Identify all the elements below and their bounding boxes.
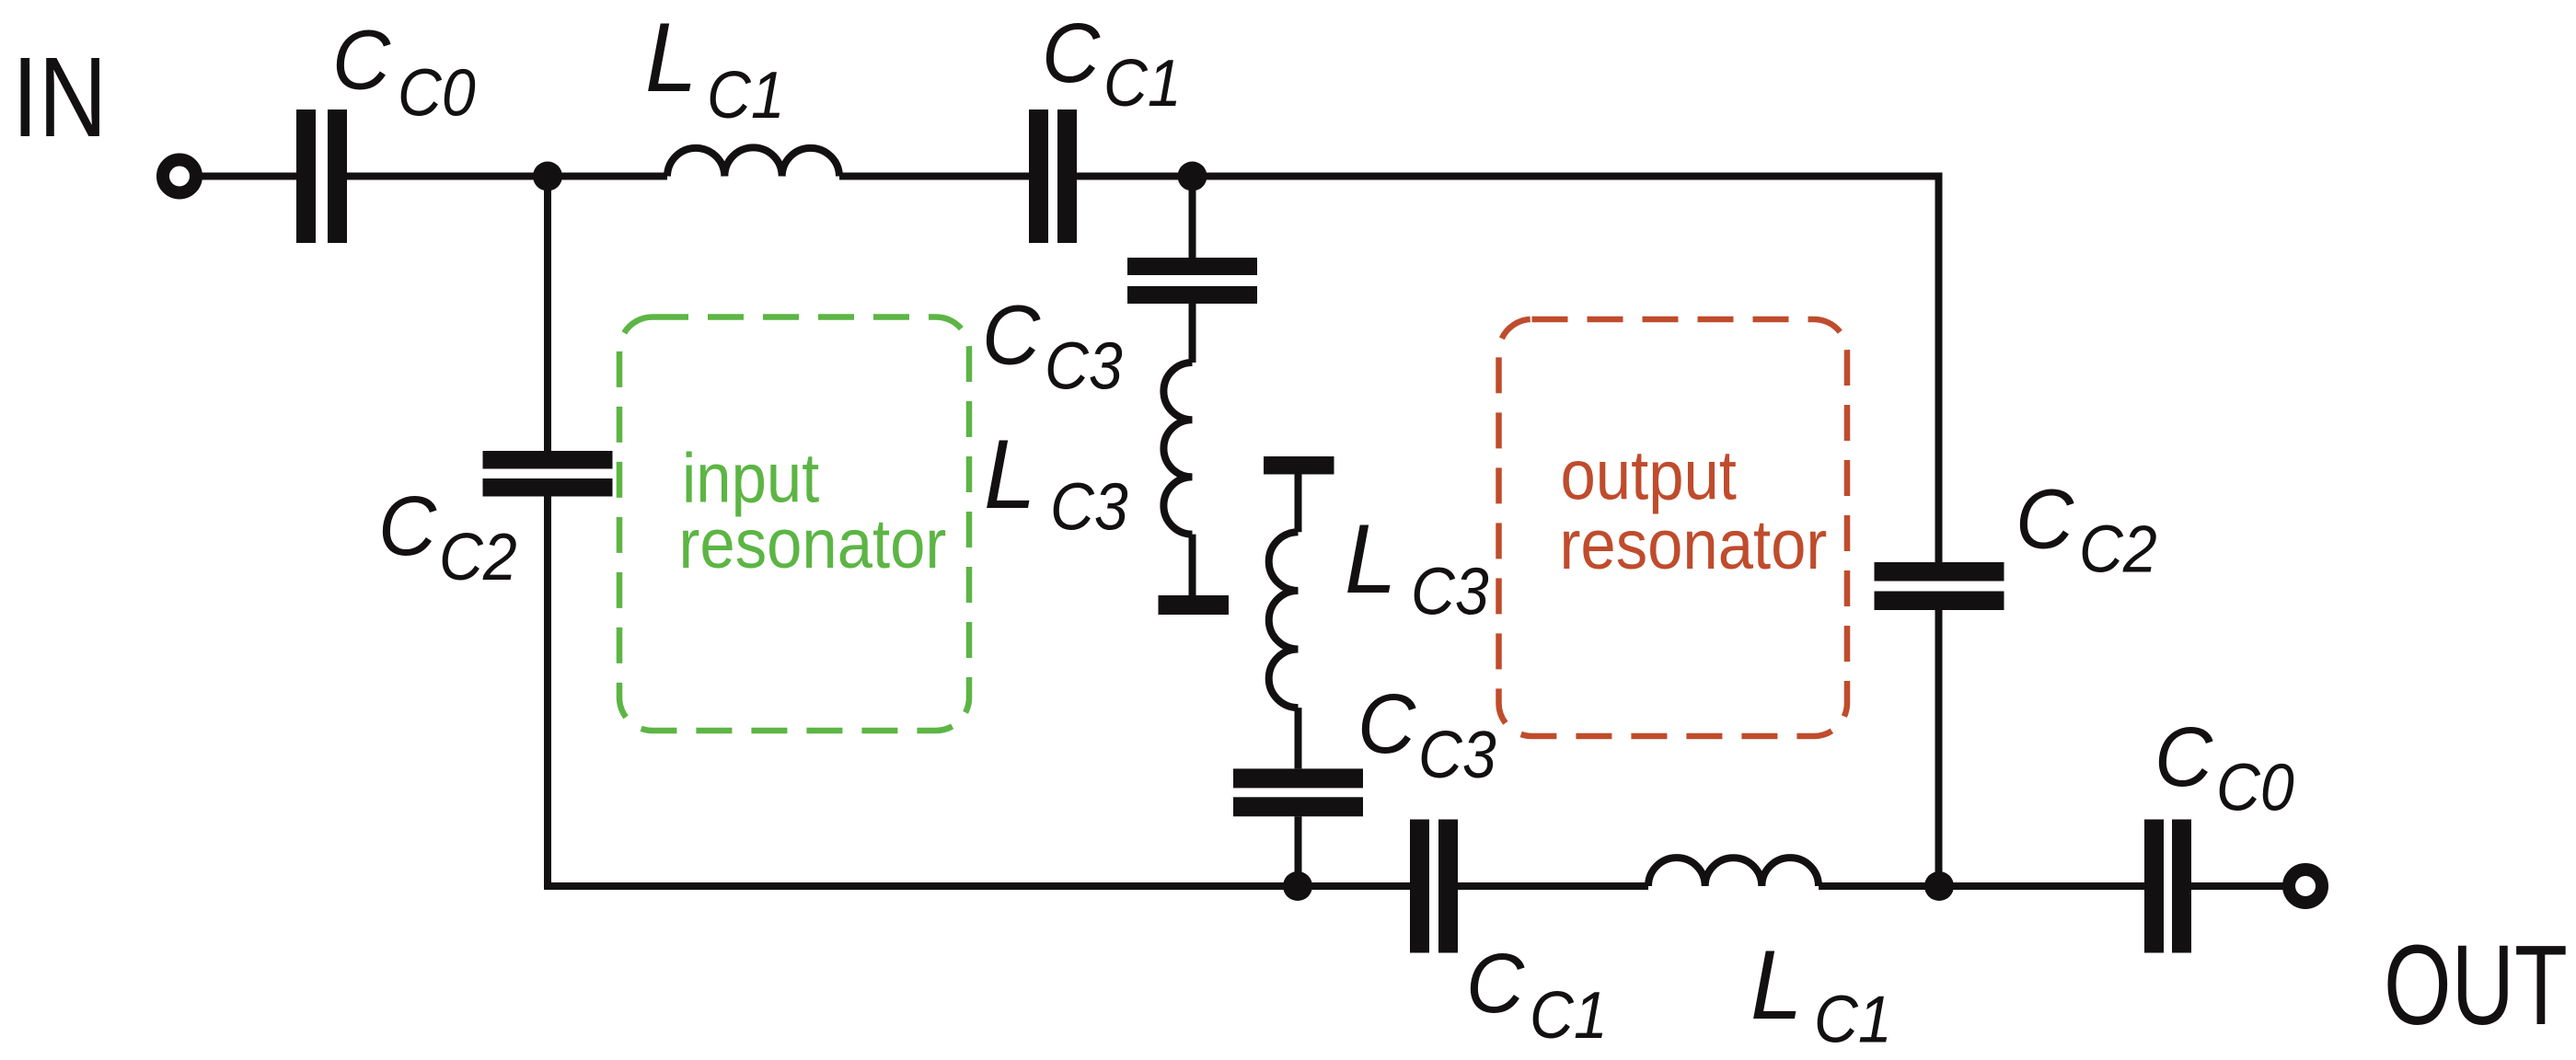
svg-text:C3: C3: [1050, 469, 1128, 544]
capacitor C_C0 top plates: [296, 109, 347, 243]
svg-text:C1: C1: [707, 57, 785, 132]
svg-text:C3: C3: [1411, 554, 1489, 628]
svg-text:resonator: resonator: [679, 505, 947, 583]
capacitor C_C2 left plates: [483, 451, 613, 497]
svg-text:L: L: [1750, 931, 1803, 1041]
svg-text:C: C: [1466, 937, 1525, 1031]
junction node B dot: [1178, 162, 1207, 191]
wire C_C2 right to bottom node: [1935, 610, 1943, 886]
inductor L_C1 top coil: [667, 147, 839, 176]
label L_C1 top: [645, 4, 785, 132]
junction node A dot: [533, 162, 562, 191]
svg-text:L: L: [1345, 505, 1397, 615]
wire bottom node to C_C0 bottom: [1939, 882, 2145, 890]
capacitor C_C1 top plates: [1029, 109, 1077, 243]
wire C_C2 left to bottom left corner to C_C1 bottom: [548, 497, 1410, 887]
capacitor C_C3 branch1 plates: [1127, 258, 1257, 304]
wire C_C0 to L_C1 through node A: [347, 173, 667, 180]
wire L_C1 bottom to bottom node: [1819, 882, 1939, 890]
label C_C3 branch1: [982, 288, 1123, 403]
label OUT: [2384, 923, 2568, 1049]
svg-text:IN: IN: [12, 35, 107, 162]
junction node C dot: [1283, 871, 1312, 901]
wire C_C1 to top right corner down to C_C2 right: [1077, 177, 1939, 563]
label C_C3 branch2: [1357, 677, 1496, 792]
IN terminal: [163, 160, 196, 193]
wire C_C3 branch1 to L_C3 branch1: [1189, 304, 1196, 363]
svg-text:C3: C3: [1045, 328, 1123, 403]
input resonator dashed box: [619, 317, 969, 732]
svg-text:resonator: resonator: [1560, 506, 1828, 584]
label C_C0 bottom: [2154, 710, 2294, 824]
svg-text:C: C: [332, 13, 391, 108]
svg-text:C: C: [1357, 677, 1416, 772]
capacitor C_C0 bottom plates: [2144, 820, 2191, 953]
label C_C1 bottom: [1466, 937, 1608, 1053]
svg-text:C1: C1: [1530, 977, 1608, 1052]
svg-text:C: C: [2154, 710, 2213, 805]
label C_C0 top: [332, 13, 476, 130]
svg-text:output: output: [1561, 436, 1737, 514]
label IN: [12, 35, 107, 162]
wire node B down to C_C3 branch1: [1189, 177, 1196, 259]
label L_C3 branch1: [984, 421, 1128, 544]
label C_C2 left: [378, 479, 517, 594]
wire L_C3 branch2 to C_C3 branch2: [1295, 708, 1302, 768]
label C_C1 top: [1042, 6, 1182, 121]
svg-text:C: C: [2016, 472, 2074, 567]
open end bar branch1: [1159, 595, 1230, 615]
svg-text:C1: C1: [1103, 45, 1182, 120]
OUT terminal: [2289, 870, 2322, 903]
svg-text:L: L: [984, 421, 1036, 530]
junction node D dot: [1924, 871, 1954, 901]
wire L_C1 to C_C1: [839, 173, 1029, 180]
wire C_C3 branch2 to bottom wire: [1295, 816, 1302, 886]
capacitor C_C3 branch2 plates: [1233, 768, 1363, 816]
wire node A down to C_C2 left: [544, 177, 551, 452]
wire C_C0 bottom to OUT: [2191, 882, 2286, 890]
svg-text:L: L: [645, 4, 698, 113]
wire branch2 bar to L_C3 branch2: [1295, 474, 1302, 532]
capacitor C_C2 right plates: [1875, 562, 2004, 610]
svg-text:C2: C2: [439, 519, 517, 593]
label output resonator: [1560, 436, 1828, 584]
capacitor C_C1 bottom plates: [1410, 820, 1458, 953]
wire C_C1 bottom to L_C1 bottom: [1458, 882, 1648, 890]
svg-text:C0: C0: [398, 55, 476, 130]
wire L_C3 branch1 to open end bar: [1189, 535, 1196, 595]
svg-text:C3: C3: [1418, 717, 1496, 791]
svg-text:C: C: [378, 479, 437, 574]
label L_C3 branch2: [1345, 505, 1489, 628]
inductor L_C3 branch2 coil: [1269, 532, 1299, 708]
inductor L_C3 branch1 coil: [1163, 363, 1192, 535]
label input resonator: [679, 439, 947, 583]
wire IN to C_C0: [199, 173, 296, 180]
svg-text:C0: C0: [2216, 750, 2294, 824]
label L_C1 bottom: [1750, 931, 1892, 1056]
svg-text:C: C: [982, 288, 1041, 383]
svg-text:C1: C1: [1814, 982, 1892, 1056]
label C_C2 right: [2016, 472, 2157, 586]
svg-text:C: C: [1042, 6, 1101, 101]
inductor L_C1 bottom coil: [1648, 858, 1819, 886]
output resonator dashed box: [1499, 319, 1848, 736]
svg-text:OUT: OUT: [2384, 923, 2568, 1049]
open end bar branch2: [1264, 456, 1334, 475]
svg-text:C2: C2: [2079, 512, 2157, 586]
